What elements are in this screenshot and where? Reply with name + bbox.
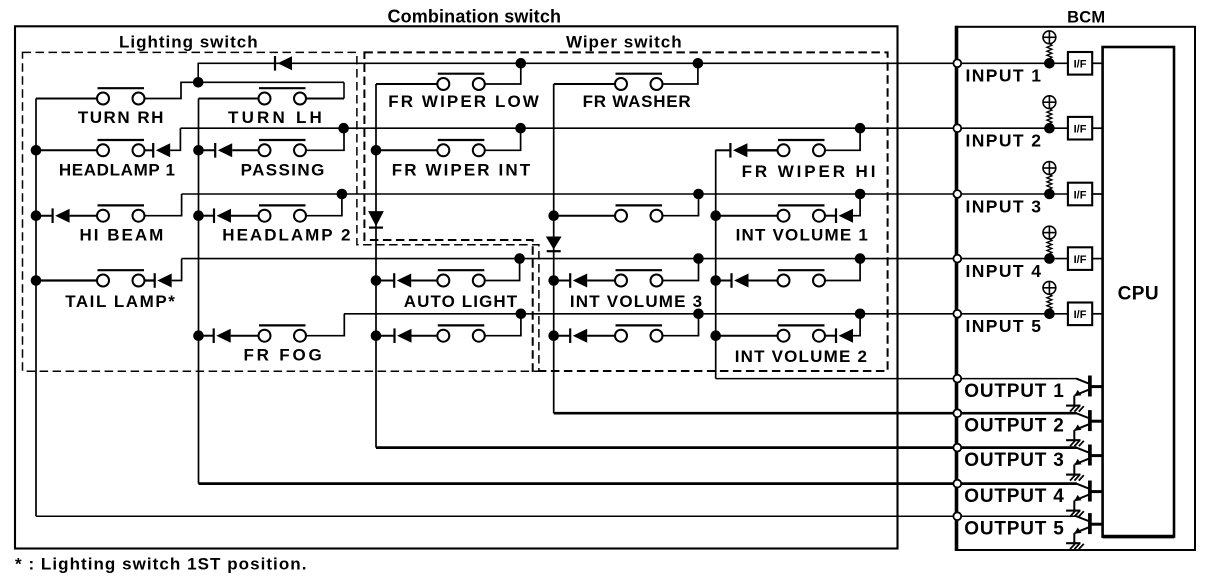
diode D17 INT VOLUME2 bbox=[836, 328, 853, 343]
label HEADLAMP 1 bbox=[59, 160, 176, 179]
wire xF to row5 mid diode bbox=[554, 335, 571, 337]
wire diode to HEADLAMP2 bbox=[231, 215, 259, 217]
I/F box U4 for INPUT 4 bbox=[1068, 247, 1092, 270]
svg-text:TAIL LAMP*: TAIL LAMP* bbox=[65, 292, 176, 311]
label OUTPUT 4 bbox=[964, 486, 1064, 507]
title Wiper switch bbox=[566, 32, 683, 51]
wire TAIL LAMP riser bbox=[172, 259, 182, 281]
wire FR FOG right riser bbox=[306, 314, 344, 336]
switch FR WIPER INT bbox=[437, 140, 485, 156]
diode D16 row5 mid bbox=[570, 328, 587, 343]
node xB HEADLAMP2 bbox=[193, 210, 204, 221]
pull-up resistor R2 for INPUT 2 bbox=[1043, 96, 1056, 128]
wire diode to AUTO LIGHT bbox=[411, 280, 437, 282]
node xD AUTO LIGHT bbox=[371, 275, 382, 286]
label INT VOLUME 1 bbox=[736, 226, 869, 245]
transistor Q3 OUTPUT 3 bbox=[1074, 445, 1102, 475]
node on INPUT3 at HEADLAMP2 riser bbox=[337, 189, 348, 200]
pull-up resistor R3 for INPUT 3 bbox=[1043, 162, 1056, 194]
wire TURN LH right bbox=[306, 98, 344, 100]
svg-text:* : Lighting switch 1ST positi: * : Lighting switch 1ST position. bbox=[15, 555, 307, 574]
wire bus xB (TURN LH left) bbox=[198, 99, 200, 484]
label FR WIPER LOW bbox=[388, 92, 541, 111]
wire INPUT 3 line bbox=[182, 193, 1068, 195]
node on INPUT1 at FR WIPER LOW riser bbox=[516, 58, 527, 69]
wire diode to row5 mid switch bbox=[587, 335, 615, 337]
svg-text:FR WASHER: FR WASHER bbox=[583, 92, 692, 111]
wire OUTPUT 3 line bbox=[376, 446, 1077, 449]
wire I/F 4 to CPU bbox=[1092, 258, 1102, 260]
wire I/F 3 to CPU bbox=[1092, 193, 1102, 195]
label INT VOLUME 2 bbox=[735, 347, 868, 366]
switch HI BEAM bbox=[97, 205, 145, 221]
svg-text:Wiper switch: Wiper switch bbox=[566, 32, 683, 51]
wire OUTPUT 2 line bbox=[554, 412, 1077, 415]
pin OUTPUT 5 connector bbox=[953, 512, 961, 520]
diode D13 row4 right bbox=[732, 273, 749, 288]
transistor Q5 OUTPUT 5 bbox=[1074, 513, 1102, 543]
BCM connector bus line (thick left edge) bbox=[955, 26, 959, 551]
wire row3 mid left bbox=[554, 215, 615, 217]
combination switch outer box bbox=[15, 26, 898, 548]
wire INPUT 4 line bbox=[182, 258, 1068, 260]
wire INT VOLUME2 to diode bbox=[825, 335, 836, 337]
svg-text:HEADLAMP 1: HEADLAMP 1 bbox=[59, 160, 176, 179]
I/F box U5 for INPUT 5 bbox=[1068, 303, 1092, 326]
switch row5 mid bbox=[615, 325, 663, 341]
wire I/F 5 to CPU bbox=[1092, 313, 1102, 315]
switch INT VOLUME 3 bbox=[615, 270, 663, 286]
switch TURN LH bbox=[259, 88, 307, 104]
svg-text:FR WIPER LOW: FR WIPER LOW bbox=[388, 92, 541, 111]
ground for Q4 bbox=[1066, 511, 1084, 517]
wire OUTPUT 5 line bbox=[36, 515, 1077, 517]
switch TURN RH bbox=[97, 88, 145, 104]
label TAIL LAMP* bbox=[65, 292, 176, 311]
label FR WIPER INT bbox=[392, 160, 532, 179]
switch HEADLAMP 1 bbox=[97, 140, 145, 156]
svg-text:I/F: I/F bbox=[1074, 309, 1087, 321]
transistor Q2 OUTPUT 2 bbox=[1074, 410, 1102, 440]
wire row5 mid riser bbox=[663, 314, 699, 336]
node turn local junction bbox=[193, 77, 204, 88]
node on INPUT4 at INT VOLUME3 riser bbox=[693, 253, 704, 264]
diode D1 on INPUT1 line bbox=[275, 56, 292, 71]
transistor Q4 OUTPUT 4 bbox=[1074, 481, 1102, 511]
wire xA to HI BEAM diode bbox=[36, 215, 53, 217]
node xB FR FOG bbox=[193, 330, 204, 341]
wire xF to INT VOLUME3 diode bbox=[554, 280, 571, 282]
label TURN RH bbox=[78, 108, 165, 127]
node xA TAIL LAMP bbox=[31, 275, 42, 286]
wire diode to FR WIPER HI bbox=[747, 149, 777, 151]
svg-text:I/F: I/F bbox=[1074, 189, 1087, 201]
label OUTPUT 5 bbox=[964, 518, 1064, 539]
svg-text:INPUT 3: INPUT 3 bbox=[966, 196, 1043, 216]
diode D8 HEADLAMP2 bbox=[214, 208, 231, 223]
CPU box U1 bbox=[1103, 47, 1174, 537]
wire row4 right riser bbox=[825, 259, 860, 281]
node xA HEADLAMP1 bbox=[31, 145, 42, 156]
node on INPUT3 at INT VOLUME1 riser bbox=[855, 189, 866, 200]
wire diode to PASSING bbox=[232, 149, 258, 151]
node xF INT VOLUME3 bbox=[548, 275, 559, 286]
svg-text:INPUT 1: INPUT 1 bbox=[966, 66, 1043, 86]
wire row5 xD riser bbox=[485, 314, 521, 336]
wire FR WASHER right riser bbox=[663, 63, 698, 84]
wire I/F 2 to CPU bbox=[1092, 127, 1102, 129]
node xG INT VOLUME2 bbox=[710, 330, 721, 341]
label PASSING bbox=[241, 160, 326, 179]
node INPUT 3 pull-up junction bbox=[1044, 189, 1055, 200]
wire FR WIPER INT left bbox=[376, 149, 437, 151]
label OUTPUT 3 bbox=[964, 450, 1064, 471]
ground for Q5 bbox=[1066, 543, 1084, 549]
node on INPUT2 at PASSING riser bbox=[338, 123, 349, 134]
wire OUTPUT 1 line bbox=[716, 378, 1077, 380]
label OUTPUT 2 bbox=[964, 415, 1064, 436]
wire row3 mid right riser bbox=[663, 194, 699, 216]
pin OUTPUT 3 connector bbox=[953, 444, 961, 452]
ground for Q2 bbox=[1066, 440, 1084, 446]
diode D15 row5 xD bbox=[395, 328, 412, 343]
wire HEADLAMP1 to diode bbox=[145, 149, 154, 151]
wire TURN RH right riser bbox=[145, 82, 199, 98]
svg-text:INPUT 4: INPUT 4 bbox=[966, 261, 1043, 281]
node xF row3 bbox=[548, 210, 559, 221]
wire xG to row4 diode bbox=[716, 280, 732, 282]
node xG row4 bbox=[710, 275, 721, 286]
label INPUT 2 bbox=[966, 131, 1043, 151]
label FR WASHER bbox=[583, 92, 692, 111]
node INPUT 5 pull-up junction bbox=[1044, 309, 1055, 320]
wire FR WIPER HI right riser bbox=[825, 128, 860, 150]
svg-text:OUTPUT 1: OUTPUT 1 bbox=[964, 381, 1064, 402]
node INPUT 4 pull-up junction bbox=[1044, 253, 1055, 264]
svg-text:OUTPUT 2: OUTPUT 2 bbox=[964, 415, 1064, 436]
label OUTPUT 1 bbox=[964, 381, 1064, 402]
label FR FOG bbox=[243, 346, 324, 365]
diode D2 down on bus xD bbox=[368, 211, 384, 228]
wire diode to HI BEAM bbox=[70, 215, 97, 217]
wire AUTO LIGHT right riser bbox=[485, 259, 520, 281]
wire INT VOLUME2 riser bbox=[853, 314, 860, 336]
title Lighting switch bbox=[119, 32, 259, 51]
node on INPUT3 at mid-column riser bbox=[693, 189, 704, 200]
diode D9 INT VOLUME1 bbox=[836, 208, 853, 223]
label INPUT 4 bbox=[966, 261, 1043, 281]
svg-text:FR WIPER INT: FR WIPER INT bbox=[392, 160, 532, 179]
transistor Q1 OUTPUT 1 bbox=[1074, 376, 1102, 406]
diode D7 HI BEAM bbox=[53, 208, 70, 223]
wire INT VOLUME1 to diode bbox=[825, 215, 836, 217]
wire INT VOLUME2 left bbox=[716, 335, 778, 337]
switch row3 mid bbox=[615, 205, 663, 221]
diode D14 FR FOG bbox=[214, 328, 231, 343]
wire diode to row4 switch bbox=[749, 280, 778, 282]
node on INPUT4 at right-column riser bbox=[855, 253, 866, 264]
pull-up resistor R1 for INPUT 1 bbox=[1043, 31, 1056, 63]
svg-text:INT VOLUME 2: INT VOLUME 2 bbox=[735, 347, 868, 366]
diode D3 down on bus xF bbox=[546, 237, 562, 252]
node on INPUT2 at FR WIPER INT riser bbox=[515, 123, 526, 134]
wire INPUT 5 line bbox=[344, 313, 1068, 315]
wire HEADLAMP2 right riser bbox=[306, 194, 342, 216]
wire TAIL LAMP left bbox=[36, 279, 97, 281]
switch FR WASHER bbox=[615, 74, 663, 90]
wire bus xD (wiper low/int + auto light) bbox=[375, 84, 377, 448]
pin INPUT 4 connector bbox=[953, 255, 961, 263]
label FR WIPER HI bbox=[742, 162, 879, 181]
node xA HI BEAM bbox=[31, 210, 42, 221]
node xG INT VOLUME1 bbox=[710, 210, 721, 221]
footnote lighting switch 1ST position bbox=[15, 555, 307, 574]
svg-text:PASSING: PASSING bbox=[241, 160, 326, 179]
wire OUTPUT 4 line bbox=[199, 482, 1077, 485]
node on INPUT1 at FR WASHER riser bbox=[693, 58, 704, 69]
node on INPUT5 at INT VOLUME2 riser bbox=[855, 309, 866, 320]
svg-text:INT VOLUME 1: INT VOLUME 1 bbox=[736, 226, 869, 245]
label INPUT 5 bbox=[966, 316, 1043, 336]
svg-text:I/F: I/F bbox=[1074, 124, 1087, 136]
pin INPUT 1 connector bbox=[953, 59, 961, 67]
pin INPUT 5 connector bbox=[953, 310, 961, 318]
svg-text:BCM: BCM bbox=[1067, 8, 1105, 26]
label TURN LH bbox=[228, 108, 325, 127]
svg-text:TURN RH: TURN RH bbox=[78, 108, 165, 127]
svg-text:OUTPUT 5: OUTPUT 5 bbox=[964, 518, 1064, 539]
switch AUTO LIGHT bbox=[437, 270, 485, 286]
wire TURN RH left bbox=[36, 98, 97, 100]
wire PASSING right riser bbox=[306, 128, 344, 150]
svg-text:I/F: I/F bbox=[1074, 59, 1087, 71]
svg-text:OUTPUT 3: OUTPUT 3 bbox=[964, 450, 1064, 471]
switch row5 xD bbox=[437, 325, 485, 341]
node INPUT 2 pull-up junction bbox=[1044, 123, 1055, 134]
node on INPUT5 at riser x520 bbox=[516, 309, 527, 320]
wire TAIL LAMP to diode bbox=[145, 279, 155, 281]
switch INT VOLUME 2 bbox=[778, 325, 826, 341]
pull-up resistor R4 for INPUT 4 bbox=[1043, 226, 1056, 258]
diode D5 PASSING bbox=[215, 143, 232, 158]
diode D6 FR WIPER HI bbox=[730, 143, 747, 158]
label HI BEAM bbox=[80, 226, 166, 245]
wire TURN LH right riser bbox=[343, 82, 345, 98]
node xB PASSING bbox=[193, 145, 204, 156]
switch HEADLAMP 2 bbox=[259, 205, 307, 221]
switch PASSING bbox=[259, 140, 307, 156]
wire INPUT 1 stub to turn node bbox=[197, 63, 199, 83]
pin OUTPUT 4 connector bbox=[953, 480, 961, 488]
switch TAIL LAMP bbox=[97, 270, 145, 286]
label AUTO LIGHT bbox=[404, 292, 519, 311]
wire HI BEAM right riser bbox=[145, 194, 182, 216]
node xD row5 bbox=[371, 330, 382, 341]
title BCM bbox=[1067, 8, 1105, 26]
wire I/F 1 to CPU bbox=[1092, 62, 1102, 64]
switch INT VOLUME 1 bbox=[778, 205, 826, 221]
node INPUT 1 pull-up junction bbox=[1044, 58, 1055, 69]
wire left bus xA bbox=[35, 99, 37, 517]
svg-text:I/F: I/F bbox=[1074, 254, 1087, 266]
svg-text:FR FOG: FR FOG bbox=[243, 346, 324, 365]
diode D10 TAIL LAMP bbox=[155, 273, 172, 288]
wire xD to row5 diode bbox=[376, 335, 395, 337]
diode D4 HEADLAMP1 bbox=[153, 143, 170, 158]
wire FR WIPER INT right riser bbox=[485, 128, 521, 150]
node xD FR WIPER INT bbox=[371, 145, 382, 156]
title Combination switch bbox=[387, 6, 561, 26]
I/F box U1 for INPUT 1 bbox=[1068, 52, 1092, 75]
wire bus xF (FR WASHER column) bbox=[553, 84, 555, 413]
wire INPUT 2 line bbox=[180, 127, 1068, 129]
wire PASSING diode wire bbox=[199, 149, 216, 151]
switch FR WIPER HI bbox=[778, 140, 826, 156]
pin OUTPUT 2 connector bbox=[953, 409, 961, 417]
svg-text:HEADLAMP 2: HEADLAMP 2 bbox=[222, 226, 352, 245]
svg-text:AUTO LIGHT: AUTO LIGHT bbox=[404, 292, 519, 311]
switch FR WIPER LOW bbox=[437, 74, 485, 90]
node on INPUT2 at FR WIPER HI riser bbox=[855, 123, 866, 134]
node on INPUT4 at AUTO LIGHT riser bbox=[514, 253, 525, 264]
switch FR FOG bbox=[259, 325, 307, 341]
wiper switch dashed box bbox=[364, 52, 887, 371]
wire INT VOLUME1 left bbox=[716, 215, 778, 217]
svg-text:CPU: CPU bbox=[1118, 283, 1159, 304]
svg-text:Lighting switch: Lighting switch bbox=[119, 32, 259, 51]
node xF row5 bbox=[548, 330, 559, 341]
diode D11 AUTO LIGHT bbox=[394, 273, 411, 288]
lighting switch dashed box bbox=[23, 52, 539, 371]
ground for Q3 bbox=[1066, 475, 1084, 481]
wire xB to FR FOG diode bbox=[199, 335, 214, 337]
wire bus xG (FR WIPER HI column) bbox=[715, 150, 717, 379]
diode D12 INT VOLUME3 bbox=[570, 273, 587, 288]
pin INPUT 2 connector bbox=[953, 124, 961, 132]
wire TURN LH left bbox=[199, 98, 259, 100]
label INT VOLUME 3 bbox=[570, 292, 703, 311]
wire xG to FR WIPER HI diode bbox=[716, 149, 731, 151]
wire diode to INT VOLUME3 bbox=[587, 280, 615, 282]
label HEADLAMP 2 bbox=[222, 226, 352, 245]
wire HEADLAMP1 left bbox=[36, 149, 97, 151]
wire INT VOLUME1 riser bbox=[853, 194, 860, 216]
BCM outer box bbox=[957, 27, 1196, 550]
I/F box U2 for INPUT 2 bbox=[1068, 117, 1092, 140]
pin OUTPUT 1 connector bbox=[953, 375, 961, 383]
wire INT VOLUME3 right riser bbox=[663, 259, 699, 281]
svg-text:TURN LH: TURN LH bbox=[228, 108, 325, 127]
label INPUT 1 bbox=[966, 66, 1043, 86]
wire diode to row5 switch bbox=[412, 335, 438, 337]
wire xB to HEADLAMP2 diode bbox=[199, 215, 215, 217]
svg-text:Combination switch: Combination switch bbox=[387, 6, 561, 26]
pull-up resistor R5 for INPUT 5 bbox=[1043, 281, 1056, 313]
switch row4 right bbox=[778, 270, 826, 286]
svg-text:OUTPUT 4: OUTPUT 4 bbox=[964, 486, 1064, 507]
wire diode to FR FOG bbox=[231, 335, 259, 337]
wire turn local line bbox=[198, 81, 344, 83]
wire FR WASHER left bbox=[554, 83, 615, 85]
wire FR WIPER LOW left bbox=[376, 83, 437, 85]
wire INPUT 1 line bbox=[198, 62, 1068, 64]
svg-text:INPUT 2: INPUT 2 bbox=[966, 131, 1043, 151]
svg-text:INT VOLUME 3: INT VOLUME 3 bbox=[570, 292, 703, 311]
I/F box U3 for INPUT 3 bbox=[1068, 183, 1092, 206]
label CPU bbox=[1118, 283, 1159, 304]
wire HEADLAMP1 riser bbox=[170, 128, 180, 150]
label INPUT 3 bbox=[966, 196, 1043, 216]
svg-text:INPUT 5: INPUT 5 bbox=[966, 316, 1043, 336]
node on INPUT5 at mid-column riser bbox=[693, 309, 704, 320]
svg-text:FR WIPER HI: FR WIPER HI bbox=[742, 162, 879, 181]
wire FR WIPER LOW right riser bbox=[485, 63, 521, 84]
pin INPUT 3 connector bbox=[953, 190, 961, 198]
wire xD to AUTO LIGHT diode bbox=[376, 280, 394, 282]
ground for Q1 bbox=[1066, 406, 1084, 412]
svg-text:HI BEAM: HI BEAM bbox=[80, 226, 166, 245]
